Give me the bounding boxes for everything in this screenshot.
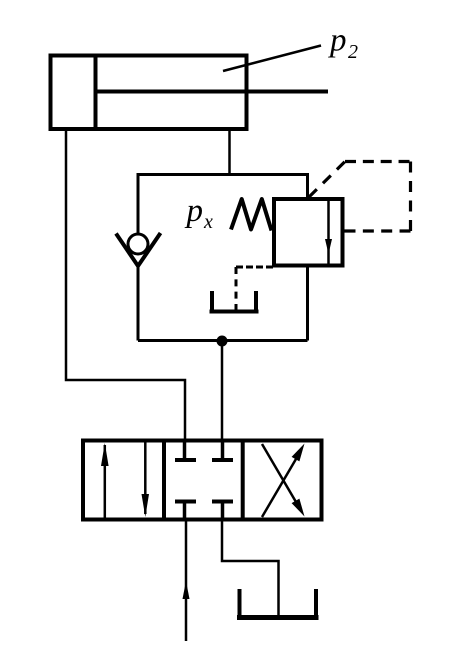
svg-text:p: p [185, 193, 204, 229]
svg-text:p: p [328, 23, 347, 59]
svg-text:2: 2 [348, 41, 358, 63]
svg-text:x: x [203, 211, 213, 233]
